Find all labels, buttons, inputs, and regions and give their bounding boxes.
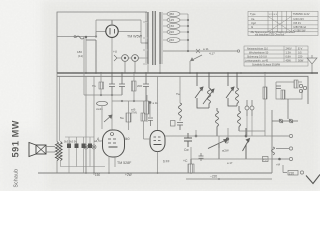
- trimmer arrow T: [104, 115, 112, 122]
- table 1 cell text: [250, 12, 310, 37]
- wire top-left box outline: [57, 12, 147, 73]
- connector stack right: [299, 84, 306, 92]
- coupling capacitor C7: [184, 133, 192, 147]
- resistor R4 (200): [132, 73, 143, 101]
- transformer T1 primary tap stubs: [143, 22, 147, 64]
- paper grain overlay: [0, 0, 320, 191]
- capacitor C2b: [119, 73, 125, 95]
- transformer T1 winding ticks left: [145, 13, 148, 62]
- grid cap connectors G1 G2: [84, 145, 96, 173]
- junction dots on bottom bus: [85, 172, 220, 180]
- tube V3 pins: [144, 130, 158, 173]
- wire inner loop to oscillator tube: [57, 20, 148, 73]
- tap value labels: [169, 12, 174, 42]
- dial lamps L1 L2: [114, 55, 148, 73]
- capacitor C2a: [109, 73, 115, 95]
- coil L7 (spring) on AVC line: [179, 76, 182, 121]
- wires above bus mid: [83, 36, 85, 95]
- terminal strip right: [272, 134, 304, 174]
- wire link row y101: [112, 100, 146, 102]
- voltage selector taps (110/125/150/220/240): [163, 11, 189, 51]
- wire column to V3: [149, 76, 158, 131]
- pickup / phono mark bottom right: [306, 175, 320, 184]
- bottom bus wire: [38, 173, 272, 179]
- volume pot wiper P2: [208, 138, 229, 159]
- resistor R5b: [141, 101, 146, 130]
- capacitor bank row C10-C13: [65, 137, 94, 173]
- choke coil on terminal column: [272, 147, 275, 155]
- tube V2 (UCH, bottom-left envelope): [103, 130, 125, 157]
- tube V2 pins: [109, 129, 115, 173]
- transformer T1 winding ticks right: [160, 13, 163, 63]
- resistor R12 on x265 drop: [263, 87, 267, 99]
- junction dots on bus: [85, 72, 313, 74]
- coil L6 in right loop: [281, 90, 285, 99]
- speaker SP: [29, 143, 55, 157]
- small box component left of C8: [171, 121, 176, 127]
- right loop circuit: [276, 82, 302, 99]
- main HT bus wire: [57, 72, 318, 74]
- electrolytic pair C5: [245, 100, 254, 116]
- wire grid row y95: [84, 76, 122, 145]
- table 2 cell text: [245, 46, 304, 66]
- IF coil L-A (spring) with trimmer arrow: [195, 73, 209, 108]
- secondary bus wire: [57, 76, 308, 104]
- capacitor C2c: [143, 73, 149, 101]
- resistor R11 above V3: [145, 95, 149, 122]
- IF coil L-D (spring) with arrow: [226, 73, 237, 106]
- on/off switch contacts: [272, 99, 298, 173]
- capacitor C15 on output line: [199, 153, 204, 161]
- table 2 (mains data table): [244, 46, 308, 66]
- resistor R8: [294, 80, 298, 88]
- antenna symbol right of table 2: [307, 55, 317, 73]
- title text Schaub 591MW (vertical, left margin): [11, 120, 21, 188]
- table 1 (tube data table): [248, 11, 318, 35]
- small box component on output wire: [263, 157, 269, 162]
- misc wires bottom middle: [165, 128, 272, 159]
- IF coil L-B (spring): [203, 73, 214, 108]
- transformer feed wires to chassis: [148, 64, 160, 73]
- wire column x265: [264, 73, 266, 136]
- tube V3 (output tube envelope): [150, 131, 165, 152]
- capacitor C8: [177, 123, 183, 131]
- resistor R2 below bus: [92, 73, 104, 95]
- tube V1 (oscillator, circle): [106, 20, 118, 37]
- resistor R5a (5w): [120, 101, 131, 130]
- electrolytic C9 bottom: [183, 159, 194, 173]
- output transformer T2 (zigzag windings): [55, 73, 105, 173]
- IF coil L-F row2 spring: [238, 106, 241, 131]
- transformer T1 (power transformer): [148, 11, 160, 65]
- resistor R9 (220): [288, 171, 298, 176]
- mains switch and fuse wiring: [163, 49, 240, 73]
- fuse / vibrator contact on grid wire: [74, 36, 96, 74]
- capacitor C6 in right loop: [276, 86, 281, 89]
- junction blob on output wire: [278, 158, 281, 161]
- coil L3 (oscillator coil horizontal): [96, 101, 108, 129]
- electrolytic pair drops: [247, 113, 252, 136]
- IF coil L-C row2 spring: [216, 108, 219, 136]
- capacitor C14: [148, 118, 153, 126]
- IF coil L-E (spring): [236, 73, 239, 106]
- tone pot wiper P3: [243, 128, 250, 159]
